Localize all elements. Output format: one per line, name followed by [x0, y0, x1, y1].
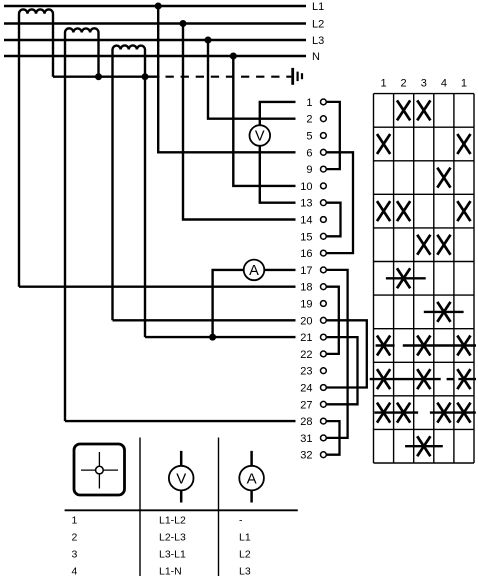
legend column divider 2 [218, 438, 220, 577]
node L3 tap [205, 37, 212, 44]
node L1 tap [155, 3, 162, 10]
power line L2 [4, 22, 306, 24]
legend row position 1 [72, 514, 244, 526]
contact bridge line row 10 [374, 411, 418, 413]
wire T2 secondary to terminal 28 [65, 420, 296, 422]
svg-text:24: 24 [300, 383, 312, 395]
dashed earth wire [166, 76, 292, 78]
wire T1 secondary to terminal 18 [19, 286, 296, 288]
svg-text:1: 1 [461, 78, 467, 90]
wire link terminal 17 to terminal 31 [327, 270, 348, 438]
legend row position 4 [72, 566, 251, 578]
current transformer T1 (on L1) winding [19, 9, 53, 286]
contact mark row 5 position-column 3 [417, 235, 430, 255]
wire link terminal 20 to terminal 24 [327, 320, 367, 387]
voltmeter P1 [249, 125, 270, 146]
svg-text:L1: L1 [239, 531, 251, 543]
svg-text:2: 2 [72, 531, 78, 543]
earth symbol [293, 68, 302, 85]
legend header rule [65, 509, 298, 511]
wire link terminal 13 to terminal 15 [327, 203, 341, 237]
legend row position 3 [72, 549, 251, 561]
contact mark row 2 position-column 1 [377, 134, 390, 154]
svg-text:3: 3 [72, 549, 78, 561]
contact bridge line row 6 [386, 277, 426, 279]
svg-text:L2-L3: L2-L3 [159, 531, 186, 543]
contact mark row 9 position-column 3 [417, 369, 430, 389]
svg-text:A: A [247, 470, 257, 487]
svg-text:6: 6 [306, 147, 312, 159]
wire L2 tap to terminal 14 [183, 24, 296, 220]
svg-text:4: 4 [441, 78, 447, 90]
contact mark row 4 position-column 5 [457, 201, 470, 221]
svg-text:14: 14 [300, 215, 312, 227]
svg-text:N: N [312, 51, 320, 63]
contact bridge line row 10 [430, 411, 476, 413]
junction T3-bus [142, 73, 149, 80]
svg-text:15: 15 [300, 231, 312, 243]
contact bridge line row 9 [447, 378, 454, 380]
wire terminal 1 to voltmeter [260, 102, 296, 125]
svg-text:23: 23 [300, 366, 312, 378]
contact mark row 5 position-column 4 [437, 235, 450, 255]
svg-text:10: 10 [300, 181, 312, 193]
wire link terminal 6 to terminal 16 [327, 152, 353, 253]
svg-text:5: 5 [306, 131, 312, 143]
svg-text:L1-L2: L1-L2 [159, 514, 186, 526]
power line N [4, 55, 306, 57]
wire link terminal 28 to terminal 32 [327, 421, 340, 455]
contact bridge line row 8 [403, 344, 476, 346]
svg-text:19: 19 [300, 299, 312, 311]
svg-text:2: 2 [401, 78, 407, 90]
contact mark row 2 position-column 5 [457, 134, 470, 154]
contact bridge line row 7 [424, 311, 464, 313]
wire L1 tap to terminal 6 [158, 6, 295, 152]
contact bridge line row 8 [376, 344, 395, 346]
wire T3 secondary to terminal 20 [113, 319, 296, 321]
contact bridge line row 9 [370, 378, 441, 380]
svg-text:28: 28 [300, 416, 312, 428]
contact bridge line row 9 [458, 378, 476, 380]
current transformer T3 (on L3) winding [113, 45, 146, 320]
legend voltmeter symbol [180, 451, 183, 503]
contact mark row 1 position-column 3 [417, 100, 430, 120]
contact mark row 3 position-column 4 [437, 168, 450, 188]
svg-text:L3-L1: L3-L1 [159, 549, 186, 561]
svg-text:L2: L2 [239, 549, 251, 561]
power line L1 [4, 5, 306, 7]
svg-text:27: 27 [300, 399, 312, 411]
contact mark row 9 position-column 5 [457, 369, 470, 389]
svg-text:L1: L1 [312, 1, 324, 13]
contact mark row 8 position-column 3 [417, 336, 430, 356]
wire voltmeter to terminal 13 [260, 146, 296, 203]
svg-text:22: 22 [300, 349, 312, 361]
contact mark row 6 position-column 2 [397, 268, 410, 288]
svg-text:1: 1 [381, 78, 387, 90]
svg-text:L1-N: L1-N [159, 566, 182, 578]
svg-text:20: 20 [300, 315, 312, 327]
contact mark row 10 position-column 5 [457, 403, 470, 423]
svg-text:3: 3 [421, 78, 427, 90]
svg-text:32: 32 [300, 450, 312, 462]
svg-text:13: 13 [300, 198, 312, 210]
wire link terminal 1 to terminal 9 [327, 102, 340, 169]
svg-text:1: 1 [306, 97, 312, 109]
contact bridge line row 11 [405, 445, 443, 447]
contact mark row 10 position-column 2 [397, 403, 410, 423]
wire ammeter to terminal 17 [264, 269, 295, 271]
wire L3 tap to terminal 2 [208, 40, 296, 119]
svg-text:L3: L3 [312, 35, 324, 47]
contact mark row 4 position-column 2 [397, 201, 410, 221]
contact mark row 10 position-column 1 [377, 403, 390, 423]
legend row position 2 [72, 531, 251, 543]
contact mark row 4 position-column 1 [377, 201, 390, 221]
svg-text:V: V [176, 470, 186, 487]
wire ammeter to wire 21 [213, 270, 244, 337]
svg-text:18: 18 [300, 282, 312, 294]
svg-text:V: V [255, 129, 265, 145]
svg-text:9: 9 [306, 164, 312, 176]
switching table header [381, 78, 467, 90]
ammeter P2 [244, 260, 265, 281]
svg-text:L3: L3 [239, 566, 251, 578]
svg-text:16: 16 [300, 248, 312, 260]
wire bus down to wire 21 [144, 77, 146, 337]
contact mark row 9 position-column 1 [377, 369, 390, 389]
svg-text:21: 21 [300, 332, 312, 344]
CT secondary common bus [53, 75, 160, 77]
wire link terminal 18 to terminal 22 [327, 287, 339, 354]
legend ammeter symbol [250, 451, 253, 503]
svg-text:L2: L2 [312, 19, 324, 31]
wire bus to terminal 21 [145, 336, 296, 338]
wire link terminal 21 to terminal 27 [327, 337, 358, 404]
svg-text:A: A [249, 263, 259, 279]
current transformer T2 (on L2) winding [65, 28, 99, 421]
node L2 tap [180, 20, 187, 27]
node N tap [230, 53, 237, 60]
power line L3 [4, 39, 306, 41]
contact mark row 8 position-column 1 [377, 336, 390, 356]
junction ammeter-wire21 [209, 334, 216, 341]
contact mark row 10 position-column 4 [437, 403, 450, 423]
contact mark row 8 position-column 5 [457, 336, 470, 356]
svg-text:-: - [239, 514, 243, 526]
svg-text:4: 4 [72, 566, 78, 578]
legend column divider 1 [139, 438, 141, 577]
selector knob symbol [74, 444, 125, 495]
contact mark row 11 position-column 3 [417, 436, 430, 456]
svg-text:2: 2 [306, 114, 312, 126]
svg-text:1: 1 [72, 514, 78, 526]
svg-text:17: 17 [300, 265, 312, 277]
junction T2-bus [95, 73, 102, 80]
contact mark row 7 position-column 4 [437, 302, 450, 322]
wire N tap to terminal 10 [233, 56, 295, 186]
svg-text:31: 31 [300, 433, 312, 445]
switching table grid [374, 94, 475, 463]
contact mark row 1 position-column 2 [397, 100, 410, 120]
